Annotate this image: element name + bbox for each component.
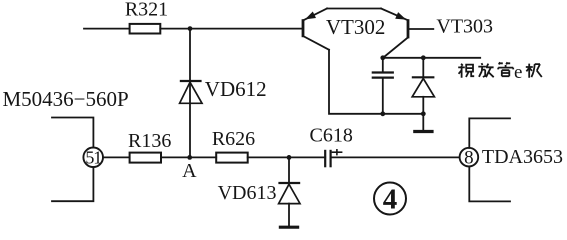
arrowhead into VT303 emitter (395, 12, 406, 20)
svg-text:51: 51 (85, 148, 101, 168)
ground (below VD613) (279, 226, 299, 229)
svg-text:R626: R626 (212, 128, 255, 150)
wire: top input wire left of R321 (84, 28, 130, 30)
svg-text:VD613: VD613 (218, 182, 277, 204)
svg-text:M50436−560P: M50436−560P (3, 87, 129, 111)
node: junction capacitor bottom on collector line (380, 111, 385, 116)
svg-text:VT302: VT302 (326, 15, 386, 39)
capacitor (emitter bypass, unlabeled) (372, 58, 394, 114)
svg-text:R136: R136 (128, 130, 171, 152)
pin 8 of TDA3653 (460, 148, 479, 167)
ground (below damper diode) (413, 130, 433, 133)
svg-text:8: 8 (464, 148, 474, 169)
node: junction above VD613 (287, 155, 292, 160)
IC TDA3653 bracket edge (469, 118, 510, 147)
wire: VT302 collector down and along bottom to diode (329, 50, 423, 114)
wire: top wire from R321 to VT302 base (160, 28, 302, 30)
node: junction diode bottom on collector line (421, 111, 426, 116)
wire: emitter bridge between VT302 and VT303 (327, 8, 381, 10)
wire: R626 to C618 (248, 156, 326, 158)
svg-text:TDA3653: TDA3653 (482, 146, 563, 168)
wire: vertical from top wire down to node A through VD612 (189, 29, 191, 158)
wire: R136 to R626 (161, 156, 216, 158)
node: junction on top wire at x=190 (188, 26, 193, 31)
svg-text:VD612: VD612 (205, 77, 267, 101)
diode VD613 (278, 157, 300, 225)
node: junction at damper diode top (421, 55, 426, 60)
svg-text:R321: R321 (125, 0, 168, 20)
capacitor C618 (325, 149, 342, 167)
resistor R321 (130, 24, 161, 34)
IC M50436 bracket edge (52, 118, 93, 148)
svg-text:A: A (182, 160, 197, 182)
transistor VT303 (381, 9, 433, 58)
svg-text:4: 4 (383, 184, 398, 216)
wire: pin 51 to R136 (103, 156, 130, 158)
svg-text:VT303: VT303 (436, 15, 493, 37)
resistor R136 (130, 153, 161, 163)
symbol: circled figure number 4 (374, 183, 406, 215)
arrowhead into VT302 emitter (305, 12, 316, 20)
diode VD612 (180, 81, 202, 103)
resistor R626 (216, 153, 248, 163)
label 视放管e极 (to video output tube e electrode) (458, 62, 542, 78)
svg-text:C618: C618 (310, 124, 353, 146)
node A junction dot (187, 155, 192, 160)
node: junction at VT303 collector / capacitor top (380, 55, 385, 60)
svg-text:e: e (514, 62, 522, 83)
diode (damper, unlabeled) (412, 58, 435, 131)
wire: C618 to pin 8 (331, 156, 460, 158)
pin 51 of M50436 (83, 148, 103, 168)
transistor VT302 (303, 9, 329, 50)
wire: emitter node line to 视放管e极 (383, 57, 480, 59)
